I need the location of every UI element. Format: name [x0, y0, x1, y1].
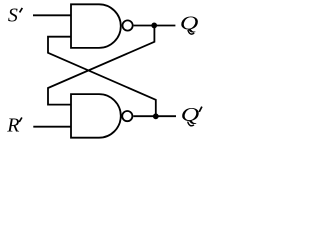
- svg-text:Q: Q: [181, 104, 200, 126]
- svg-text:Q: Q: [180, 12, 199, 34]
- svg-text:R: R: [6, 115, 19, 137]
- svg-text:S: S: [8, 5, 18, 27]
